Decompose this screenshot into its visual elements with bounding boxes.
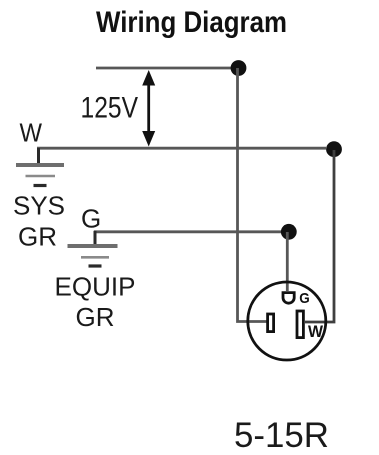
svg-text:G: G <box>299 290 310 307</box>
receptacle outline 5-15R <box>248 282 326 360</box>
wire: W line <box>37 147 326 150</box>
svg-text:5-15R: 5-15R <box>234 416 329 455</box>
svg-text:Wiring Diagram: Wiring Diagram <box>96 6 287 39</box>
svg-text:125V: 125V <box>81 92 139 125</box>
wire: vertical drop from G junction to ground hole <box>286 232 289 291</box>
receptacle right slot <box>297 311 303 338</box>
svg-text:W: W <box>20 118 43 148</box>
ground SYS GR <box>16 148 64 186</box>
wire: top supply line <box>96 67 239 70</box>
svg-text:GR: GR <box>18 222 57 252</box>
svg-text:EQUIP: EQUIP <box>55 272 136 302</box>
receptacle ground hole <box>283 293 294 304</box>
dimension arrow 125V <box>142 70 155 147</box>
wire: G line <box>94 230 281 233</box>
node: junction dot G <box>281 224 297 240</box>
wire: vertical drop from top junction to receptacle left slot <box>238 68 267 322</box>
svg-text:W: W <box>308 322 324 341</box>
wire: vertical drop from W junction to receptacle right slot <box>305 150 334 322</box>
ground EQUIP GR <box>68 231 118 266</box>
node: junction dot top <box>231 60 247 76</box>
svg-text:SYS: SYS <box>13 191 65 221</box>
node: junction dot W <box>326 141 342 157</box>
receptacle left slot <box>268 314 274 332</box>
svg-text:GR: GR <box>76 302 115 332</box>
svg-text:G: G <box>81 204 101 234</box>
